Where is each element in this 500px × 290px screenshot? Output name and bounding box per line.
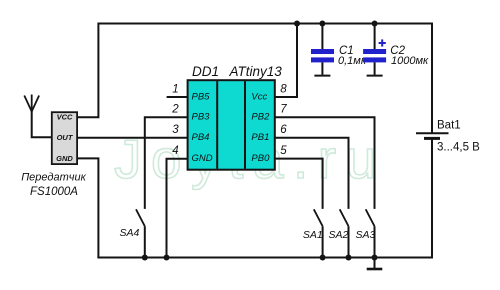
switch SA2: [340, 209, 349, 257]
ground: [367, 258, 383, 270]
svg-text:VCC: VCC: [57, 113, 73, 122]
svg-text:SA3: SA3: [356, 229, 376, 241]
node bottom rail / SA1 junction: [320, 255, 326, 261]
node bottom rail / IC GND junction: [164, 255, 170, 261]
wire left vertical to VCC: [77, 23, 99, 118]
svg-text:7: 7: [280, 104, 287, 116]
plus sign of C2: [379, 39, 386, 46]
svg-text:0,1мк: 0,1мк: [338, 55, 367, 67]
wire OUT to pin3: [77, 137, 188, 139]
node bottom rail / SA2 junction: [346, 255, 352, 261]
node bottom rail / SA3-ground junction: [372, 255, 378, 261]
switch SA1: [314, 209, 323, 257]
svg-text:SA4: SA4: [120, 227, 140, 239]
node top rail / C1 junction: [319, 21, 325, 27]
svg-text:FS1000A: FS1000A: [30, 186, 78, 198]
wire pin4 GND down to bottom rail: [167, 159, 188, 258]
svg-text:PB1: PB1: [251, 132, 269, 143]
node top rail / C2 junction: [372, 21, 378, 27]
svg-text:GND: GND: [192, 153, 213, 164]
switch SA3: [366, 209, 375, 257]
switch SA4: [136, 209, 145, 257]
svg-text:1: 1: [172, 84, 178, 96]
svg-text:PB3: PB3: [192, 112, 211, 123]
wire bottom rail: [97, 257, 432, 259]
wire right vertical (battery top): [431, 23, 433, 134]
svg-text:ATtiny13: ATtiny13: [229, 64, 283, 79]
antenna: [24, 95, 52, 138]
svg-text:2: 2: [171, 104, 179, 116]
node bottom rail / SA4 junction: [142, 255, 148, 261]
svg-text:SA1: SA1: [303, 229, 323, 241]
svg-text:6: 6: [280, 124, 287, 136]
svg-text:PB4: PB4: [192, 132, 210, 143]
op-amp U1: ATtiny13 IC body DD1: [188, 80, 275, 170]
wire right vertical (battery bottom): [431, 138, 433, 258]
svg-text:3...4,5 В: 3...4,5 В: [437, 142, 480, 154]
wire pin2 to SA4: [145, 117, 188, 209]
svg-text:Bat1: Bat1: [437, 120, 461, 132]
svg-text:3: 3: [172, 124, 179, 136]
svg-text:4: 4: [172, 145, 178, 157]
pin 1 stub (free): [167, 96, 188, 98]
wire GND down to bottom rail: [77, 158, 99, 257]
svg-text:DD1: DD1: [192, 64, 219, 79]
svg-text:8: 8: [280, 84, 287, 96]
svg-text:OUT: OUT: [57, 133, 74, 142]
wire pin5 to SA1: [275, 159, 323, 209]
node top rail / pin8 junction: [294, 21, 300, 27]
IC divider left: [216, 80, 218, 170]
svg-text:Передатчик: Передатчик: [21, 172, 86, 184]
battery Bat1: [416, 133, 449, 138]
IC divider right: [244, 80, 246, 170]
svg-text:PB5: PB5: [192, 92, 211, 103]
svg-text:SA2: SA2: [329, 229, 349, 241]
capacitor C1: [311, 24, 334, 76]
svg-text:Vcc: Vcc: [251, 92, 267, 103]
wire pin8 Vcc up to top rail: [275, 24, 297, 98]
capacitor C2 (polarized): [363, 24, 386, 76]
svg-text:1000мк: 1000мк: [391, 55, 429, 67]
wire top rail: [98, 23, 432, 25]
transmitter module box: [52, 112, 77, 164]
svg-text:GND: GND: [56, 154, 73, 163]
svg-text:PB0: PB0: [251, 153, 270, 164]
wire pin6 to SA2: [275, 138, 349, 209]
wire pin7 to SA3: [275, 117, 375, 209]
svg-text:PB2: PB2: [251, 112, 270, 123]
svg-text:5: 5: [280, 145, 287, 157]
